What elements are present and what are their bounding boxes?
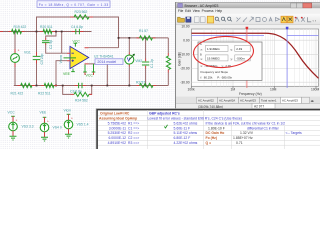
source VS4 VEE [40, 111, 62, 137]
svg-text:6.80E-12 F: 6.80E-12 F [174, 136, 191, 140]
svg-text:6.0000E-12: 6.0000E-12 [108, 136, 126, 140]
ground for VS3 [10, 136, 17, 140]
svg-text:5.11E+02 ohms: 5.11E+02 ohms [174, 131, 198, 135]
svg-text:Assuming Ideal OpAmp: Assuming Ideal OpAmp [99, 117, 137, 121]
ground for VS5 [65, 134, 72, 138]
resistor R1 [137, 29, 156, 40]
svg-text:Fo (Hz): Fo (Hz) [206, 136, 218, 140]
svg-text:4.22E+02 ohms: 4.22E+02 ohms [174, 141, 198, 145]
voltmeter VM2 [125, 53, 143, 67]
wire input pin stub [0, 31, 3, 33]
wire R24 feedback loop [63, 86, 92, 95]
capacitor C4 [71, 25, 84, 34]
svg-text:5.62E+02 ohms: 5.62E+02 ohms [174, 121, 198, 125]
svg-text:3.0000E-11: 3.0000E-11 [109, 126, 126, 130]
svg-text:R3 ==>: R3 ==> [128, 141, 139, 145]
capacitor C3 [70, 83, 86, 94]
wire VM2 column [128, 38, 130, 86]
wire op-amp out+ to feedback node [89, 47, 119, 49]
ground for VS4 [41, 137, 48, 141]
resistor R23 [70, 10, 93, 19]
resistor R2 [136, 80, 156, 87]
svg-text:Q =: Q = [206, 141, 212, 145]
resistor R24 [71, 92, 93, 102]
svg-text:1.85E+07 Hz: 1.85E+07 Hz [233, 136, 253, 140]
svg-text:5.2530E+02: 5.2530E+02 [108, 131, 126, 135]
svg-text:<-- Targets: <-- Targets [286, 131, 303, 135]
svg-text:R1 ==>: R1 ==> [128, 121, 139, 125]
resistor R19 [9, 25, 27, 34]
generator VG1 [11, 49, 31, 68]
wire C5 branch [36, 32, 38, 86]
op-amp U2 THS4541 [59, 40, 114, 78]
resistor R21 [11, 83, 36, 95]
source VS3 VCC [8, 111, 34, 136]
svg-text:4.8910E+02: 4.8910E+02 [108, 141, 126, 145]
capacitor C1 [142, 59, 154, 69]
svg-text:5.60E-11 F: 5.60E-11 F [174, 126, 191, 130]
label box 2014 model [95, 59, 123, 65]
wire bottom row [14, 85, 169, 87]
resistor R20 [40, 25, 55, 34]
capacitor C2 [42, 38, 53, 49]
svg-text:1.32 V/V: 1.32 V/V [240, 131, 254, 135]
wire node B to C2 to +in [46, 32, 67, 54]
wire C4 node to +in [61, 32, 63, 54]
svg-text:Lowest fit error values - stan: Lowest fit error values - standard E96 R… [148, 117, 242, 121]
wire C1 column [145, 38, 147, 86]
junction dots [14, 31, 146, 87]
source VS5 Vicm [64, 109, 89, 134]
svg-text:DC Gain Ho: DC Gain Ho [206, 131, 225, 135]
wire feedback loop R23 [37, 17, 119, 48]
svg-text:5.7565E+02: 5.7565E+02 [108, 121, 126, 125]
wire top input row [0, 31, 92, 33]
svg-text:R2 ==>: R2 ==> [128, 131, 139, 135]
svg-text:Original LowFi RC: Original LowFi RC [100, 112, 130, 116]
wire right termination branch [167, 38, 169, 86]
resistor R3 vertical termination [166, 53, 170, 73]
svg-text:differential C1 in filter: differential C1 in filter [247, 126, 280, 130]
svg-text:C1 ==>: C1 ==> [128, 126, 139, 130]
capacitor C5 [33, 52, 44, 65]
wire VG1 branch [14, 32, 16, 86]
svg-text:1.80E-10 F: 1.80E-10 F [208, 126, 225, 130]
annotation note Fo/Q/Gain [37, 1, 110, 8]
wire -in input [56, 61, 67, 86]
wire output top row [119, 37, 169, 39]
svg-text:If the device is an F2A, cut t: If the device is an F2A, cut the cht val… [206, 121, 286, 125]
resistor R22 [38, 83, 57, 95]
svg-text:C2 ==>: C2 ==> [128, 136, 139, 140]
wire out- to bottom row [89, 64, 108, 86]
svg-text:0.71: 0.71 [236, 141, 243, 145]
svg-text:GBP adjusted RC's: GBP adjusted RC's [149, 112, 180, 116]
